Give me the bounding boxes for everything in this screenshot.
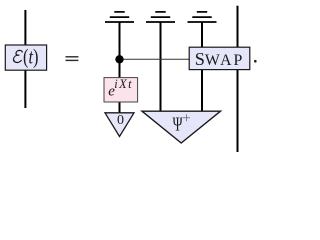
label Psi: greek Psi of Psi+ — [173, 113, 183, 135]
label E(t) calligraphic E — [13, 50, 23, 62]
ground symbol 1 — [105, 12, 134, 22]
svg-text:0: 0 — [117, 113, 124, 128]
gate e^iXt box — [104, 78, 138, 102]
svg-text:+: + — [182, 111, 190, 127]
ground symbol 3 — [188, 12, 217, 22]
svg-text:SWAP: SWAP — [195, 49, 244, 69]
period after equation — [254, 60, 257, 63]
wire 2 — [160, 22, 162, 112]
wire 3 upper — [201, 22, 203, 48]
label (t) — [23, 45, 38, 68]
svg-text:Ψ: Ψ — [173, 113, 183, 135]
measurement triangle Psi+ — [142, 111, 221, 143]
control dot — [115, 55, 123, 63]
wire 1 upper — [119, 22, 121, 78]
wire left circuit vertical — [24, 10, 26, 108]
wire 3 lower — [201, 70, 203, 112]
wire 1 lower — [119, 102, 121, 113]
wire 4 upper — [237, 6, 239, 48]
gate E(t) box — [5, 45, 46, 70]
svg-text:(t): (t) — [23, 45, 38, 68]
wire 4 lower — [237, 70, 239, 153]
equals sign — [66, 56, 79, 57]
gate SWAP box — [189, 47, 250, 69]
ground symbol 2 — [146, 12, 175, 22]
state triangle 0 — [105, 113, 134, 137]
control line — [120, 58, 190, 60]
svg-text:iXt: iXt — [114, 77, 133, 91]
